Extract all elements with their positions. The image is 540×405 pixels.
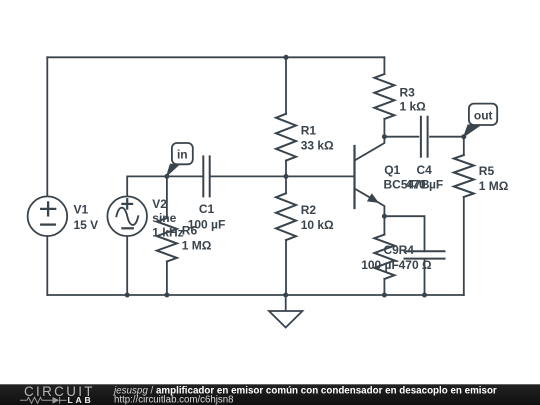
resistor R2 xyxy=(276,193,296,240)
svg-text:R3: R3 xyxy=(400,85,416,99)
capacitor C9 xyxy=(405,251,445,258)
resistor R6 xyxy=(157,218,177,262)
wire R1 bottom lead xyxy=(285,161,287,177)
wire collector to C4 xyxy=(384,136,418,138)
flag out xyxy=(463,104,497,138)
wire R6 bottom lead xyxy=(166,262,168,296)
wire R3 bottom lead xyxy=(383,119,385,137)
svg-text:15 V: 15 V xyxy=(74,218,99,232)
svg-text:sine: sine xyxy=(152,211,176,225)
wire C4 to out xyxy=(430,136,464,138)
svg-text:R1: R1 xyxy=(301,124,317,138)
node emitter xyxy=(382,214,387,219)
svg-text:http://circuitlab.com/c6hjsn8: http://circuitlab.com/c6hjsn8 xyxy=(114,394,234,405)
node C9 bottom xyxy=(422,293,427,298)
ground xyxy=(269,295,302,328)
wire left rail xyxy=(46,57,48,196)
flag in xyxy=(166,143,193,178)
capacitor C4 xyxy=(421,117,428,157)
wire bottom rail xyxy=(47,294,464,296)
svg-text:100 µF: 100 µF xyxy=(188,217,226,231)
voltage source V2 xyxy=(107,196,147,236)
wire R4 top lead xyxy=(383,216,385,234)
svg-text:out: out xyxy=(474,108,493,122)
resistor R4 xyxy=(374,235,394,280)
wire R2 top lead xyxy=(285,176,287,193)
node R6 bottom xyxy=(164,293,169,298)
wire V2 bottom xyxy=(126,236,128,295)
svg-text:1 kΩ: 1 kΩ xyxy=(400,99,427,113)
node collector xyxy=(382,134,387,139)
svg-text:1 MΩ: 1 MΩ xyxy=(182,239,212,253)
svg-text:R2: R2 xyxy=(301,203,317,217)
wire C1 to base xyxy=(210,175,354,177)
svg-text:470 µF: 470 µF xyxy=(406,177,444,191)
wire V2 top xyxy=(127,176,202,196)
node in xyxy=(164,174,169,179)
wire emitter to C9 xyxy=(384,216,424,251)
svg-text:Q1: Q1 xyxy=(384,163,400,177)
svg-text:1 kHz: 1 kHz xyxy=(152,226,183,240)
footer logo squiggle xyxy=(20,397,67,404)
svg-text:LAB: LAB xyxy=(68,395,94,405)
svg-text:C1: C1 xyxy=(199,202,215,216)
node divider xyxy=(284,174,289,179)
node top junction xyxy=(284,55,289,60)
svg-text:R4: R4 xyxy=(399,243,415,257)
node out xyxy=(461,134,466,139)
wire R6 top lead xyxy=(166,176,168,218)
svg-text:in: in xyxy=(177,147,188,161)
voltage source V1 xyxy=(28,196,68,236)
node V2 bottom xyxy=(125,293,130,298)
resistor R5 xyxy=(454,155,474,197)
wire V1 bottom xyxy=(46,236,48,295)
svg-text:100 µF: 100 µF xyxy=(361,258,399,272)
node R4 bottom xyxy=(382,293,387,298)
wire R4 bottom lead xyxy=(383,279,385,295)
resistor R1 xyxy=(276,114,296,161)
svg-text:470 Ω: 470 Ω xyxy=(399,258,432,272)
wire R1 top lead xyxy=(285,57,287,114)
svg-text:V2: V2 xyxy=(152,197,167,211)
svg-text:1 MΩ: 1 MΩ xyxy=(479,179,509,193)
capacitor C1 xyxy=(203,156,209,196)
footer bar xyxy=(0,384,540,405)
svg-text:10 kΩ: 10 kΩ xyxy=(301,218,334,232)
wire R5 top lead xyxy=(463,137,465,155)
wire R3 top lead xyxy=(383,57,385,74)
transistor Q1 xyxy=(355,137,385,217)
wire C9 bottom lead xyxy=(424,259,426,295)
node ground tap xyxy=(283,293,288,298)
svg-text:C4: C4 xyxy=(417,163,433,177)
wire R5 bottom lead xyxy=(463,197,465,295)
wire R2 bottom lead xyxy=(285,240,287,295)
svg-text:33 kΩ: 33 kΩ xyxy=(301,139,334,153)
svg-text:R5: R5 xyxy=(479,164,495,178)
svg-text:C9: C9 xyxy=(383,243,399,257)
wire top rail xyxy=(47,56,384,58)
svg-text:V1: V1 xyxy=(74,202,89,216)
resistor R3 xyxy=(374,74,394,119)
